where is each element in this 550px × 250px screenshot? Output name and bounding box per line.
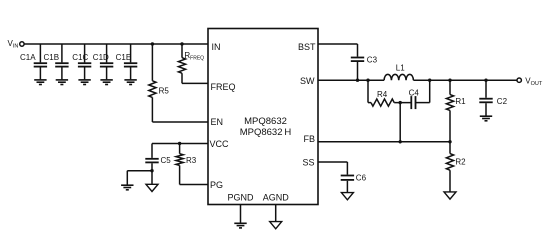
capacitor C1E	[116, 53, 138, 66]
ground c6	[341, 193, 353, 200]
wire down to R4	[368, 80, 371, 102]
wire R3 to PG	[180, 165, 208, 184]
wire RC mid to FB	[399, 103, 401, 142]
svg-text:C1C: C1C	[72, 53, 88, 62]
svg-text:MPQ8632: MPQ8632	[244, 116, 287, 127]
pin EN	[211, 117, 224, 127]
svg-text:SW: SW	[300, 76, 315, 86]
node R1 top	[448, 79, 451, 82]
ground	[78, 80, 90, 85]
node C4 rail	[428, 79, 431, 82]
svg-text:C1E: C1E	[116, 53, 132, 62]
pin PGND	[227, 192, 254, 202]
svg-text:RFREQ: RFREQ	[184, 51, 204, 62]
wire R5 to EN	[152, 97, 208, 122]
wire C2 to ground	[485, 103, 487, 116]
ground r2	[444, 192, 456, 199]
svg-text:MPQ8632 H: MPQ8632 H	[240, 127, 292, 138]
inductor L1	[384, 64, 413, 81]
wire node to left ground	[127, 171, 152, 185]
pin BST	[298, 42, 316, 52]
wire FB node to R2	[449, 142, 451, 154]
pin FB	[303, 134, 315, 144]
wire C1D to ground	[106, 67, 108, 79]
ground	[56, 80, 68, 85]
wire C3 to SW	[357, 62, 359, 80]
ground	[100, 80, 112, 85]
svg-text:R5: R5	[159, 87, 170, 96]
resistor R3	[176, 154, 197, 166]
wire rail to R1	[449, 80, 451, 94]
wire node to AGND triangle	[151, 171, 153, 185]
node C5 ground	[150, 169, 153, 172]
capacitor C1B	[44, 53, 69, 66]
pin VCC	[210, 139, 230, 149]
wire C1C to ground	[84, 67, 86, 79]
wire tap to C1D	[106, 44, 108, 62]
wire C1B to ground	[61, 67, 63, 79]
capacitor C1D	[93, 53, 114, 66]
wire rail to C2	[485, 80, 487, 98]
wire VCC to C5	[151, 144, 153, 158]
svg-text:AGND: AGND	[263, 192, 290, 202]
ground c2	[480, 116, 492, 121]
svg-text:C1D: C1D	[93, 53, 109, 62]
capacitor C2	[479, 97, 507, 106]
wire R2 to ground	[449, 170, 451, 192]
wire RFREQ to FREQ	[182, 73, 208, 83]
node R4 branch	[366, 79, 369, 82]
wire tap to C1E	[130, 44, 132, 62]
node R5 tap	[151, 42, 154, 45]
wire C1A to ground	[39, 67, 41, 79]
capacitor C6	[341, 173, 367, 182]
capacitor C3	[351, 55, 378, 64]
node RC mid	[399, 101, 402, 104]
pin AGND	[263, 192, 290, 202]
svg-text:R2: R2	[455, 157, 466, 166]
op-amp U1 MPQ8632 body	[208, 29, 318, 205]
wire FB	[318, 141, 450, 143]
svg-text:C2: C2	[497, 97, 508, 106]
ground	[124, 80, 136, 85]
svg-text:C6: C6	[356, 173, 367, 182]
node RFREQ tap	[180, 42, 183, 45]
node C3 SW	[356, 79, 359, 82]
svg-text:C1B: C1B	[44, 53, 60, 62]
svg-text:IN: IN	[212, 42, 221, 52]
svg-text:C1A: C1A	[20, 53, 36, 62]
wire PGND	[240, 205, 242, 223]
pin IN	[212, 42, 221, 52]
svg-text:PG: PG	[210, 180, 223, 190]
svg-text:C5: C5	[161, 156, 172, 165]
wire C5 to node	[151, 163, 153, 170]
node R3 tap	[178, 142, 181, 145]
svg-text:VCC: VCC	[210, 139, 230, 149]
svg-text:FREQ: FREQ	[211, 82, 236, 92]
ground	[121, 185, 133, 190]
wire SS to C6	[318, 162, 347, 175]
wire tap to C1B	[61, 44, 63, 62]
wire VCC rail	[152, 143, 208, 145]
capacitor C4	[409, 88, 420, 109]
ground agnd	[146, 184, 158, 191]
node FB divider	[448, 140, 451, 143]
wire VCC to R3	[179, 144, 181, 154]
node RC FB	[399, 140, 402, 143]
ground	[34, 80, 46, 85]
pin FREQ	[211, 82, 236, 92]
node C2 tap	[484, 79, 487, 82]
svg-text:VIN: VIN	[8, 39, 19, 50]
ground pgnd	[234, 223, 246, 228]
ground agnd pin	[270, 222, 282, 229]
resistor RFREQ	[178, 51, 204, 73]
wire VIN to IN pin	[24, 43, 208, 45]
svg-text:FB: FB	[303, 134, 315, 144]
svg-text:R3: R3	[186, 156, 197, 165]
wire tap to C1A	[39, 44, 41, 62]
wire to RFREQ	[181, 44, 183, 58]
capacitor C1A	[20, 53, 47, 66]
resistor R4	[371, 90, 394, 106]
wire R1 to FB node	[449, 110, 451, 141]
terminal VIN	[8, 39, 25, 50]
svg-text:VOUT: VOUT	[525, 76, 543, 87]
svg-text:C4: C4	[409, 88, 420, 97]
pin PG	[210, 180, 223, 190]
svg-text:C3: C3	[367, 55, 378, 64]
resistor R5	[149, 81, 170, 98]
svg-text:L1: L1	[396, 64, 405, 73]
wire to R5	[151, 44, 153, 81]
wire C6 to ground	[346, 181, 348, 193]
svg-text:BST: BST	[298, 42, 316, 52]
wire L1 to VOUT	[413, 79, 516, 81]
terminal VOUT	[517, 76, 543, 87]
svg-text:SS: SS	[302, 158, 314, 168]
resistor R1	[446, 95, 466, 111]
svg-text:R1: R1	[455, 97, 466, 106]
svg-text:R4: R4	[377, 90, 388, 99]
wire AGND	[275, 205, 277, 222]
wire R4 to C4	[394, 102, 411, 104]
svg-text:EN: EN	[211, 117, 224, 127]
wire BST to C3	[318, 44, 358, 57]
wire SW to L1	[318, 79, 384, 81]
wire tap to C1C	[84, 44, 86, 62]
pin SS	[302, 158, 314, 168]
pin SW	[300, 76, 315, 86]
svg-text:PGND: PGND	[227, 192, 254, 202]
resistor R2	[446, 154, 466, 171]
wire C4 up to rail	[416, 80, 430, 102]
capacitor C1C	[72, 53, 91, 66]
capacitor C5	[145, 156, 171, 165]
wire C1E to ground	[130, 67, 132, 79]
